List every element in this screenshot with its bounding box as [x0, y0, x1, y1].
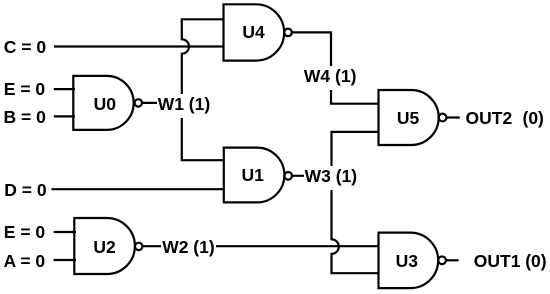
wire U5 output stub — [446, 116, 459, 118]
wire U1 output to W3 vertical — [292, 175, 332, 177]
gate label U0 — [94, 93, 116, 116]
wire net W1: U4 top input, vertical with hop over C, U1 top input — [182, 19, 224, 160]
wire U3 output stub — [446, 259, 459, 261]
nand gate U3 bubble — [438, 256, 446, 264]
nand gate U0 body — [73, 76, 133, 130]
nand gate U4 bubble — [284, 29, 292, 37]
nand gate U2 bubble — [135, 243, 142, 250]
gate label U1 — [242, 164, 264, 187]
wire B input stub to U0 — [54, 115, 75, 117]
input label E (U0) — [4, 78, 45, 101]
wire E input stub to U2 — [54, 231, 76, 233]
output label OUT1 value — [525, 250, 546, 273]
net label W2 — [161, 237, 216, 261]
gate label U3 — [396, 250, 418, 273]
wire D input to U1 — [52, 188, 224, 190]
wire net W3: U5 bottom input, vertical with hop over W2, U3 bottom input — [332, 132, 379, 273]
wire U0 output to W1 label — [142, 102, 165, 104]
nand gate U1 bubble — [284, 172, 292, 180]
wire E input stub to U0 — [54, 88, 75, 90]
nand gate U5 bubble — [439, 114, 447, 122]
input label E (U2) — [4, 221, 45, 244]
net label W3 — [304, 166, 359, 190]
output label OUT2 — [466, 107, 513, 130]
input label D — [4, 179, 46, 202]
net label W4 — [303, 66, 358, 90]
nand gate U1 body — [224, 148, 285, 203]
net label W1 — [157, 94, 212, 118]
nand gate U5 body — [379, 90, 439, 145]
nand gate U2 body — [74, 218, 135, 274]
wire net W4: U4 output down to U5 top input — [292, 32, 379, 103]
output label OUT2 value — [523, 107, 544, 130]
wire C input to U4 — [54, 45, 224, 47]
input label B — [4, 106, 46, 129]
wire net W2: U2 output to U3 top input — [142, 245, 378, 247]
gate label U2 — [93, 236, 115, 259]
output label OUT1 — [474, 250, 521, 273]
input label A — [4, 250, 46, 273]
nand gate U0 bubble — [135, 99, 142, 106]
gate label U5 — [397, 107, 419, 130]
wire A input stub to U2 — [54, 259, 76, 261]
nand gate U4 body — [224, 4, 285, 60]
input label C — [4, 36, 46, 59]
gate label U4 — [242, 21, 264, 44]
nand gate U3 body — [379, 233, 439, 289]
